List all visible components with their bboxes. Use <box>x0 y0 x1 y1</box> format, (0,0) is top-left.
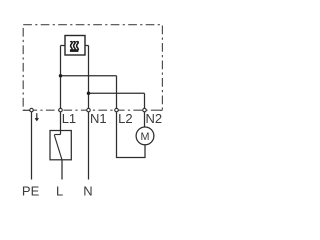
svg-text:L2: L2 <box>118 111 132 126</box>
heater E1 heat-waves symbol <box>70 42 79 52</box>
junction on L1 wire <box>59 74 63 78</box>
wire: L1 vertical (heater to terminal L1) <box>60 46 62 111</box>
switch S1 box <box>50 131 71 160</box>
terminal N2 circle <box>143 108 147 112</box>
svg-text:M: M <box>141 131 150 143</box>
wire: N1 vertical (heater to terminal N1) <box>88 46 90 111</box>
wire: switch output down to L <box>61 160 63 180</box>
svg-text:L1: L1 <box>62 111 76 126</box>
wire: N1 terminal down to N <box>88 110 90 179</box>
svg-text:N: N <box>83 183 92 198</box>
wire: L2 vertical drop to terminal L2 <box>116 76 118 111</box>
terminal N1 circle <box>87 108 91 112</box>
switch S1 blade <box>54 135 62 160</box>
motor M1 circle <box>136 127 154 145</box>
svg-text:L: L <box>56 183 63 198</box>
wire: L2 terminal down and across to motor bottom <box>117 110 146 157</box>
switch S1 fixed contact tick <box>54 134 60 136</box>
svg-text:N2: N2 <box>146 111 163 126</box>
wire: heater right lead to N1 drop <box>85 45 89 47</box>
wire: branch L1 to L2 horizontal <box>61 75 117 77</box>
svg-text:N1: N1 <box>90 111 107 126</box>
enclosure boundary (dash-dot appliance outline) <box>23 25 162 111</box>
terminal L1 circle <box>59 108 63 112</box>
wire: heater left lead to L1 drop <box>61 45 66 47</box>
wire: N2 vertical drop to terminal N2 and motor <box>144 93 146 127</box>
heater E1 box <box>65 36 85 56</box>
svg-text:PE: PE <box>22 183 40 198</box>
wire: L1 terminal down to switch <box>60 110 62 134</box>
wire: branch N1 to N2 horizontal <box>89 92 145 94</box>
terminal PE circle <box>30 108 34 112</box>
terminal L2 circle <box>115 108 119 112</box>
junction on N1 wire <box>87 91 91 95</box>
enclosure bottom edge solid run at right corner <box>160 109 163 111</box>
earth-direction arrow at PE terminal <box>35 113 39 121</box>
wire: PE drop below terminal <box>31 110 33 179</box>
enclosure bottom edge solid run at left corner <box>23 109 30 111</box>
